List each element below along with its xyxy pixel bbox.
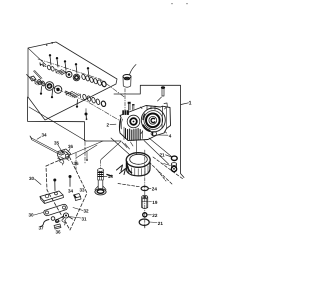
leader body to o-ring 21 <box>149 138 172 157</box>
screw 4 top of body <box>158 86 166 101</box>
speck label b <box>46 45 47 46</box>
screw pin D row1 <box>75 63 77 73</box>
speck label a <box>51 42 53 44</box>
kit boundary 2 <box>46 156 87 230</box>
disc row2 b <box>54 86 62 94</box>
ring inner ellipse <box>130 154 148 164</box>
end cap row1 <box>101 81 106 87</box>
leader diagonal to staircase corner <box>29 107 86 141</box>
svg-text:36: 36 <box>68 144 74 149</box>
leader dot mid <box>86 151 88 161</box>
leader staircase to kit2 apex <box>70 141 103 155</box>
dash mark <box>107 175 112 177</box>
cup leader curve <box>130 65 137 75</box>
needle valve cap <box>171 163 176 172</box>
pin below row2 c <box>76 100 78 108</box>
o-ring tick <box>144 226 146 228</box>
right flange block <box>162 103 167 128</box>
kit boundary 1 <box>28 42 117 120</box>
svg-text:1: 1 <box>189 101 192 107</box>
leader 22 <box>147 214 151 216</box>
nut below kit <box>85 109 88 121</box>
o-ring 21 bottom <box>139 219 149 225</box>
pin below row2 b <box>51 90 53 98</box>
inlet boss dark <box>122 110 129 115</box>
main nozzle 18 <box>95 169 106 195</box>
axis row1 dash-dot <box>38 59 125 98</box>
washer 24 <box>141 186 148 190</box>
leader cap <box>164 164 171 166</box>
bore flange corner ticks <box>141 107 167 134</box>
washer row2 a <box>37 79 42 85</box>
chevron marks <box>117 165 126 175</box>
leader 19 <box>149 201 152 203</box>
disc row2 big <box>45 82 54 91</box>
screw 30b <box>69 175 72 187</box>
screw pin C row1 <box>64 60 66 70</box>
svg-text:18: 18 <box>108 174 114 179</box>
ring leader diagonal <box>111 138 130 155</box>
lever spring <box>60 160 64 166</box>
leader 36 upper <box>69 149 71 152</box>
spring row2 left <box>35 81 44 86</box>
vertical dash to kit2 <box>84 142 86 163</box>
bore ring 4 <box>149 116 157 124</box>
svg-text:37: 37 <box>39 226 45 231</box>
dashed kit leaders bottom right <box>153 157 183 179</box>
bolt tip row1 left <box>40 63 46 67</box>
o-ring right <box>171 156 177 160</box>
throttle shaft boss <box>127 115 140 128</box>
svg-text:2: 2 <box>107 122 110 127</box>
svg-text:21: 21 <box>160 153 166 158</box>
svg-text:30: 30 <box>29 176 35 181</box>
spring row1 <box>56 69 67 75</box>
leader body to needle cap <box>144 141 169 165</box>
ring 22 <box>143 213 147 217</box>
dashed leader to washer 24 <box>118 184 140 187</box>
leader 30 lower <box>34 213 43 216</box>
boss inner arc <box>121 119 122 129</box>
hook wire <box>41 220 50 227</box>
leader 31 <box>69 217 82 219</box>
label 4 leader <box>157 134 168 136</box>
svg-text:34: 34 <box>42 133 48 138</box>
bore ring 2 <box>144 111 163 130</box>
bracket plate <box>40 191 64 204</box>
post a on top <box>128 102 131 110</box>
ring band bottom <box>126 163 150 176</box>
disc row1 b <box>73 74 80 81</box>
svg-text:31: 31 <box>82 217 88 222</box>
ring 7 connector <box>135 141 137 155</box>
dark stripe block lower body <box>126 129 141 141</box>
ring band hatch <box>129 166 149 176</box>
lever cluster <box>58 149 71 161</box>
body bottom mid lines <box>124 127 143 140</box>
throttle shaft stub <box>34 70 43 79</box>
corner leader kit1 <box>28 48 46 65</box>
bore ring 3 dark <box>146 114 160 128</box>
pin below row2 a <box>40 87 42 95</box>
washer cluster row2 <box>82 94 100 105</box>
bolt head row2 left <box>27 75 37 82</box>
oval nub below bore <box>151 132 156 136</box>
leader 35 <box>58 145 61 150</box>
fuel inlet cup 23 <box>123 75 131 88</box>
post b on top <box>132 104 134 110</box>
screw pin A row1 <box>49 54 51 65</box>
staircase leader <box>28 97 122 141</box>
bowl chain centerline <box>144 150 146 228</box>
leader 24 <box>149 187 152 189</box>
leader 32 <box>73 208 83 211</box>
svg-text:22: 22 <box>152 213 158 218</box>
disc row1 a <box>66 72 72 78</box>
svg-text:21: 21 <box>158 221 164 226</box>
screw pin B row1 <box>56 57 58 67</box>
nozzle leader from staircase <box>101 141 121 159</box>
svg-text:4: 4 <box>169 134 172 139</box>
cup centerline <box>124 89 126 112</box>
washer cluster row1 <box>81 74 102 86</box>
lower lever spring <box>62 219 67 225</box>
svg-text:19: 19 <box>152 200 158 205</box>
bottom spring <box>54 224 61 229</box>
lower lever <box>57 213 73 222</box>
leader 34 <box>37 137 41 139</box>
leader frame to label 1 <box>114 85 184 177</box>
nozzle 18 centerline <box>100 160 102 168</box>
svg-text:35: 35 <box>54 141 60 146</box>
carburetor body outline <box>120 106 171 141</box>
vertical dash lever <box>75 153 77 170</box>
svg-text:34: 34 <box>68 188 74 193</box>
svg-text:33: 33 <box>80 188 86 193</box>
choke boss left <box>119 118 121 131</box>
link rod <box>44 204 67 215</box>
speck top right 2 <box>186 3 188 4</box>
strainer cup 19 <box>142 195 148 208</box>
screw pin E row1 <box>87 67 89 77</box>
leader 30 <box>35 179 42 185</box>
svg-text:30: 30 <box>29 213 35 218</box>
end nut row2 <box>101 101 107 107</box>
body underside clutter <box>122 142 133 149</box>
spring row2 <box>66 91 81 98</box>
leader 21 right <box>166 155 172 157</box>
label 1 tick <box>181 103 189 105</box>
axis row2 dash-dot <box>31 78 121 121</box>
speck top right <box>171 3 173 4</box>
small rings 31 <box>51 217 55 221</box>
svg-text:32: 32 <box>84 209 90 214</box>
throttle rod 34 <box>30 136 60 155</box>
washer row2 b <box>41 81 46 87</box>
bore center c <box>151 118 155 122</box>
label 2 leader <box>110 123 116 125</box>
ring left edge dark <box>127 162 132 173</box>
washer row1 b <box>50 66 54 71</box>
leader 21 bottom <box>150 221 158 224</box>
svg-text:36: 36 <box>56 230 62 235</box>
screw 30a <box>53 179 56 191</box>
svg-text:24: 24 <box>152 187 158 192</box>
main bore outer circle <box>141 108 165 132</box>
washer row1 a <box>47 65 51 70</box>
bore shading crescent <box>143 126 149 131</box>
clip part 33 <box>74 194 82 201</box>
sealing ring 7 outer ellipse <box>126 153 150 168</box>
body top edge details <box>147 106 155 110</box>
leader 18 <box>104 175 107 177</box>
